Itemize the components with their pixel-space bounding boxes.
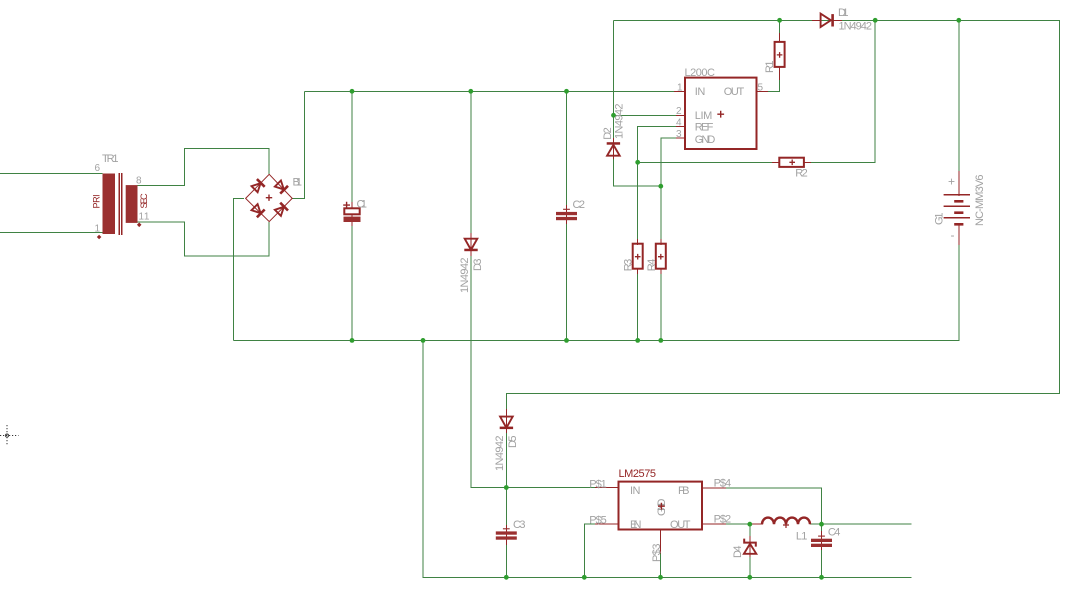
svg-text:P$4: P$4 [714,477,732,489]
svg-text:TR1: TR1 [102,153,119,165]
svg-text:IN: IN [695,86,706,98]
B1 diode bottom-right [274,203,288,217]
diode D1 [821,14,831,27]
wire R2 to right riser [638,20,876,162]
op-amp U2 LM2575 regulator box [619,482,703,530]
svg-text:P$2: P$2 [714,514,732,526]
svg-text:R2: R2 [795,168,808,180]
svg-text:4: 4 [676,117,682,128]
junction D2/LIM [611,113,616,118]
wire D3 branch down to LM2575 IN [471,91,596,487]
svg-text:NC-MM3V6: NC-MM3V6 [974,174,986,226]
resistor R1 [775,42,785,67]
svg-text:P$5: P$5 [589,515,607,527]
svg-text:FB: FB [678,485,690,497]
B1 plus mark [266,195,272,201]
LM2575 origin cross [658,503,665,510]
svg-text:R4: R4 [646,258,658,271]
origin crosshair mark [0,425,19,446]
svg-text:D1: D1 [838,7,849,19]
svg-text:1N4942: 1N4942 [614,103,626,139]
wire C2 branch [566,91,568,340]
svg-text:IN: IN [630,485,641,497]
junction D5/LM2575 IN [504,485,509,490]
B1 diode top-right [274,180,288,194]
junction D1/R2 riser [873,18,878,23]
wire IN bus to L200C pin1 [305,90,675,92]
svg-text:-: - [951,228,956,242]
junction REF/R2/R3 [635,160,640,165]
wire +12V top bus [506,20,1059,411]
svg-text:C1: C1 [357,199,368,211]
wire LM2575 GND pin to bus [660,553,662,577]
junction C2/IN bus [564,89,569,94]
TR1 polarity dot pin11 [137,223,142,228]
wire battery G1 top to +12V bus [958,20,960,172]
capacitor C2 [563,208,570,210]
resistor R4 [656,244,666,269]
svg-text:1N4942: 1N4942 [459,257,471,293]
wire R3 bottom to bus [637,272,639,340]
svg-text:R3: R3 [623,258,635,271]
junction G1 top bus [956,18,961,23]
junction C4/lower bus [819,575,824,580]
L200C origin cross [717,111,724,118]
B1 diode top-left [251,179,265,193]
wire SEC pin11 to bridge bottom [138,222,270,256]
transformer TR1 secondary winding [126,185,138,223]
svg-text:6: 6 [95,163,101,174]
svg-text:D2: D2 [602,127,614,140]
inductor L1 [762,518,810,525]
svg-text:LM2575: LM2575 [619,468,657,480]
junction C2/ground bus [564,338,569,343]
svg-text:GND: GND [695,134,716,146]
junction lower riser/ground bus [421,338,426,343]
svg-text:LIM: LIM [695,110,713,122]
svg-text:OUT: OUT [670,519,691,531]
TR1 polarity dot pin1 [97,235,102,240]
junction C1/IN bus [350,89,355,94]
junction C4/L1/FB [819,522,824,527]
wire bridge right vertex up to IN bus [292,91,305,198]
svg-text:1: 1 [677,82,683,93]
wire ground bus upper [233,244,958,340]
zener diode D4 [744,539,756,547]
wire lower ground bus [423,340,911,577]
transformer TR1 primary winding [103,174,116,235]
transformer TR1 core [119,173,122,235]
svg-text:C4: C4 [828,527,841,539]
wire C3 branch [505,488,507,578]
svg-text:REF: REF [695,121,714,133]
svg-text:1N4942: 1N4942 [839,21,873,33]
wire C1 branch [351,91,353,340]
wire R2 node to R3 [637,162,639,240]
junction R3/ground bus [635,338,640,343]
svg-text:C3: C3 [513,519,526,531]
wire LM2575 EN to bus [584,524,596,577]
wire LIM pin2 [614,114,677,116]
svg-text:11: 11 [139,212,150,223]
wire D4 branch [749,524,751,577]
wire SEC pin8 to bridge top [138,149,270,186]
pin leads (red stubs) [352,33,959,557]
svg-text:3: 3 [676,129,682,140]
svg-text:1: 1 [95,224,101,235]
svg-text:EN: EN [630,519,642,531]
junction D4/OUT net [747,522,752,527]
junction C3/lower bus [504,575,509,580]
wire LM2575 OUT to L1 and output [726,523,911,525]
svg-text:PRI: PRI [92,194,102,209]
svg-text:D3: D3 [472,258,484,271]
L1 origin cross [783,522,789,528]
op-amp U1 L200C regulator box [685,78,757,149]
svg-text:R1: R1 [764,60,776,73]
junction D3/IN bus [468,89,473,94]
wire R4 bottom to bus [660,272,662,340]
capacitor C3 [503,528,510,530]
svg-text:1N4942: 1N4942 [494,435,506,471]
wire TR1 pin6 to left edge [0,173,103,175]
svg-text:C2: C2 [573,199,586,211]
bridge rectifier B1 diamond [246,174,293,221]
junction GND/D2/R4 [658,184,663,189]
junction R4/ground bus [658,338,663,343]
diode D2 [607,142,620,145]
svg-text:L1: L1 [796,531,808,543]
junction D4/lower bus [747,575,752,580]
wire TR1 pin1 to left edge [0,231,103,233]
svg-text:P$3: P$3 [651,543,663,562]
wire D2 vertical / LIM junction [614,20,661,186]
svg-text:D5: D5 [507,435,519,448]
wire REF pin4 to R2/R3 node [638,126,676,162]
svg-text:OUT: OUT [724,86,745,98]
wire bridge left vertex to ground bus [233,199,243,341]
wire LM2575 FB loop to C4 node [726,488,822,524]
wire D5 to LM2575 IN node [505,432,507,488]
junction EN/lower bus [582,575,587,580]
resistor R3 [633,244,643,269]
svg-text:L200C: L200C [685,67,716,79]
svg-text:8: 8 [136,176,142,187]
wire GND pin3 to R4 [661,138,676,240]
resistor R2 [779,158,804,167]
junction R1 top bus [777,18,782,23]
junction C1/ground bus [350,338,355,343]
wire C4 branch [821,524,823,577]
wire L200C OUT to R1 [757,20,780,91]
junction LM GND/lower bus [658,575,663,580]
svg-text:P$1: P$1 [589,479,607,491]
capacitor C4 [818,535,825,537]
svg-text:+: + [948,175,956,189]
diode D3 [465,239,478,250]
capacitor C1 polarized [344,208,359,214]
svg-text:5: 5 [758,82,764,93]
B1 diode bottom-left [251,203,265,217]
svg-text:2: 2 [676,106,682,117]
battery G1 [944,194,970,196]
C1 plus mark [343,202,350,209]
svg-text:D4: D4 [732,545,744,558]
svg-text:G1: G1 [934,212,946,225]
svg-text:SEC: SEC [139,193,149,209]
diode D5 [500,417,513,428]
svg-text:B1: B1 [293,177,303,189]
